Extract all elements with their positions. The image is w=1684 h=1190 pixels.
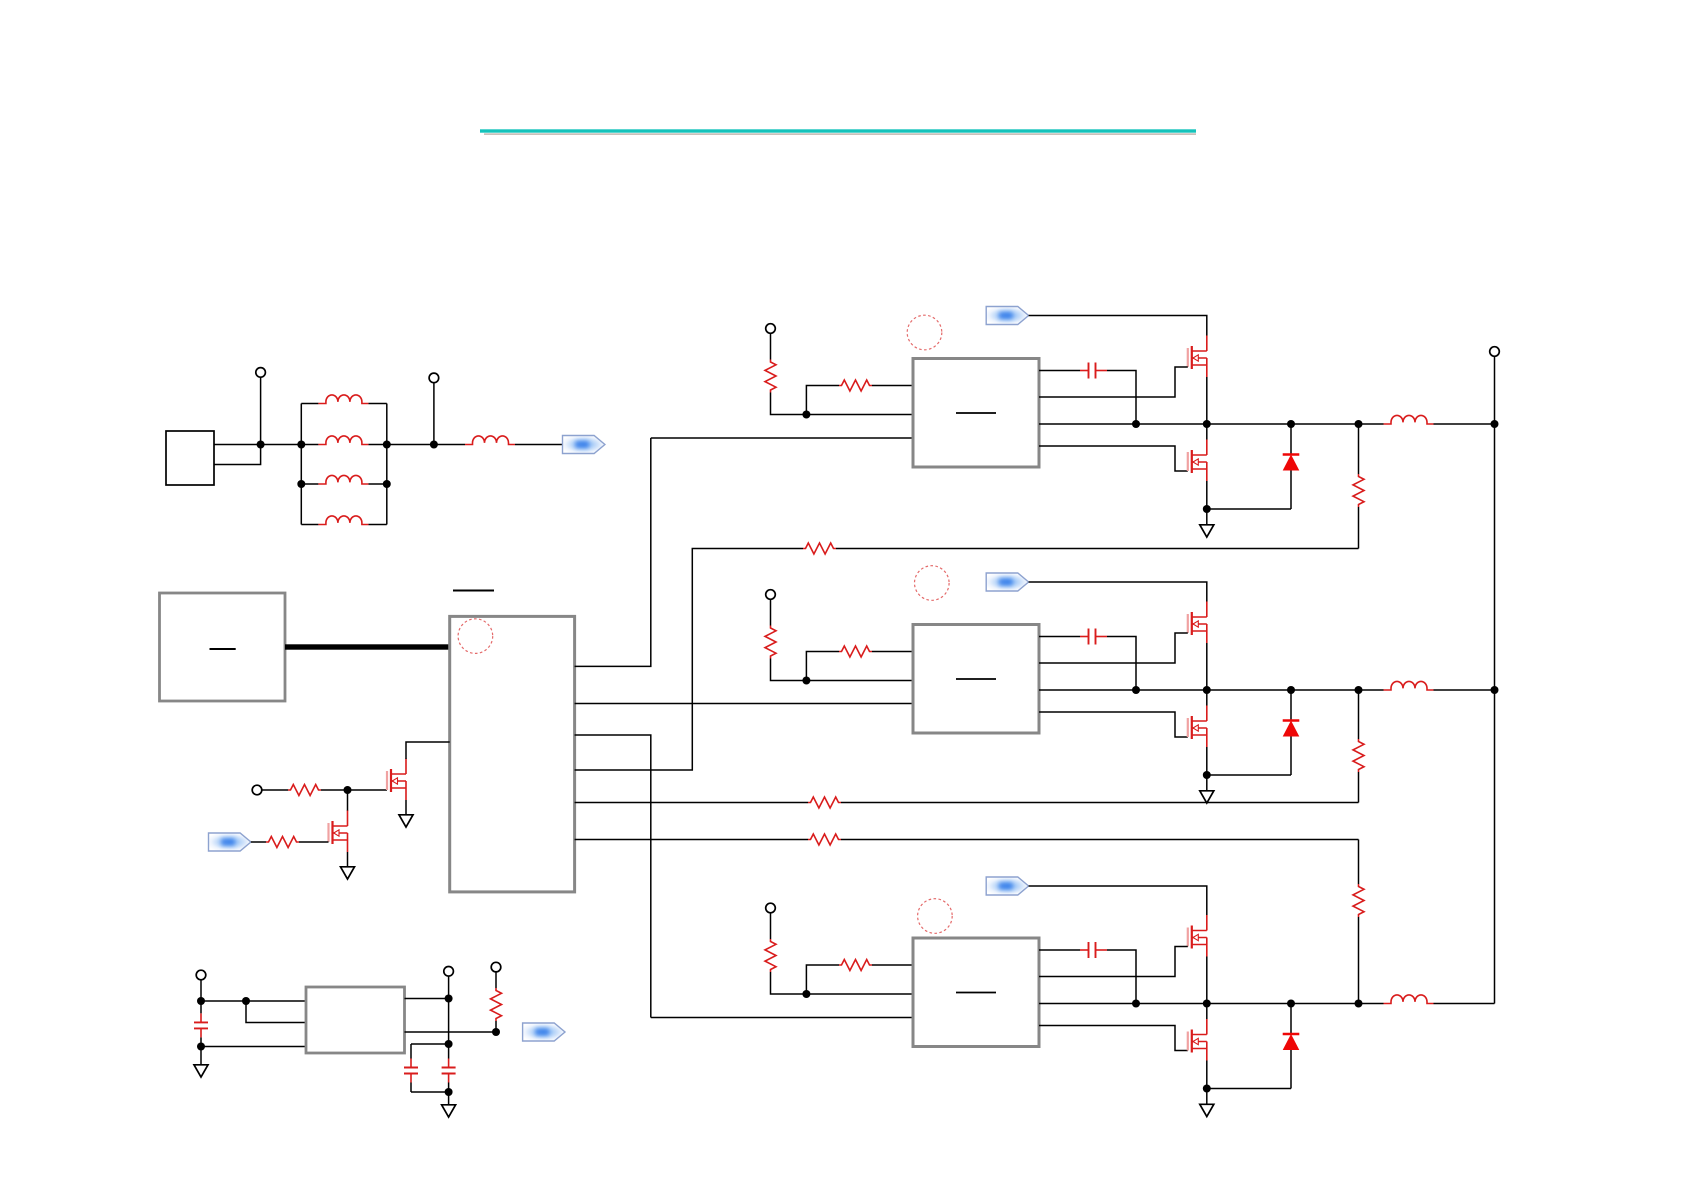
junction [1355,686,1363,694]
capacitor C3 [448,1044,450,1092]
wire rail right [386,404,388,525]
terminal J6 [491,962,501,972]
inductor L8 [1384,995,1434,1004]
junction [197,997,205,1005]
wire pin4 [575,549,803,771]
gate driver box U6 [913,938,1039,1047]
wire [260,377,262,445]
ground [1200,1104,1214,1116]
nmos Q7 high-side [1188,915,1207,957]
wire [1029,582,1207,602]
wire pin5 [575,802,808,804]
feedback wire [1358,424,1360,474]
capacitor C2 [410,1044,412,1092]
terminal J8 [766,590,776,600]
wire [1358,507,1360,549]
junction [1287,420,1295,428]
resistor R12 [808,797,841,808]
resistor R1 [288,785,321,796]
wire [1290,471,1292,510]
junction [1203,771,1211,779]
wire [1029,886,1207,915]
wire source Q2 [347,852,349,866]
ground [442,1105,456,1117]
wire [448,976,450,999]
feedback wire [1358,840,1360,885]
net flag VIN [563,436,605,454]
wire [806,680,913,682]
terminal J4 [196,970,206,980]
label dash [210,648,236,650]
capacitor C12 [1080,629,1107,645]
wire [1039,636,1080,638]
dashed circle [915,566,950,601]
junction [445,1040,453,1048]
wire [495,1021,497,1032]
junction [242,997,250,1005]
wire [872,964,913,966]
controller IC U1 [450,616,575,892]
inductor L3 [301,483,387,485]
wire [1206,424,1208,440]
inductor L2 [301,444,387,446]
junction [445,995,453,1003]
phase wire [1039,423,1384,425]
junction [1491,420,1499,428]
wire [448,999,450,1045]
wire [1107,950,1136,1004]
resistor R22a [765,626,776,659]
nmos Q4 low-side [1188,440,1207,482]
wire [1039,949,1080,951]
nmos Q2 [329,811,348,853]
inductor L1 [301,403,387,405]
junction [1132,420,1140,428]
regulator box U3 [306,987,405,1053]
wire [1206,1089,1208,1104]
label dash [956,678,996,680]
wire [872,651,913,653]
wire [405,998,449,1000]
label dash U1 [453,590,494,592]
module box A1 [160,593,286,701]
nmos Q5 high-side [1188,602,1207,644]
wire [806,386,839,415]
wire [651,437,913,439]
resistor R22b [839,646,872,657]
terminal J7 [766,324,776,334]
wire [1434,1003,1495,1005]
nmos Q8 low-side [1188,1019,1207,1061]
wire [1206,1061,1208,1089]
feedback wire [1358,690,1360,739]
net flag VCC [523,1023,565,1041]
wire [771,659,807,681]
wire [1290,1050,1292,1089]
bus wire (thick) [285,644,450,649]
capacitor C1 [200,1001,202,1047]
inductor L6 [1384,415,1434,424]
junction [1355,1000,1363,1008]
nmos Q1 [387,759,406,801]
wire source Q1 [405,800,407,814]
resistor R21b [839,380,872,391]
wire [411,1091,449,1093]
wire [1290,1004,1292,1035]
nmos Q3 high-side [1188,336,1207,378]
wire [1206,377,1208,424]
resistor R23b [839,960,872,971]
wire [214,445,261,465]
junction [1203,686,1211,694]
phase wire [1039,1003,1384,1005]
junction [297,480,305,488]
inductor L7 [1384,681,1434,690]
junction [1203,1085,1211,1093]
label dash [956,992,996,994]
inductor L5 [465,436,515,445]
wire [405,1031,497,1033]
wire [1206,957,1208,1004]
junction [383,441,391,449]
dashed circle [907,315,942,350]
dashed circle [918,899,953,934]
wire [201,1046,306,1048]
terminal J5 [444,967,454,977]
wire [1206,509,1208,524]
terminal J10 [1490,347,1500,357]
battery box B1 [166,431,214,485]
wire [495,972,497,988]
wire [1434,689,1495,691]
wire [1290,424,1292,455]
wire [770,913,772,940]
junction [445,1088,453,1096]
junction [430,441,438,449]
resistor R23a [765,939,776,972]
wire [200,980,202,1001]
wire [246,1001,306,1023]
wire [321,789,387,791]
junction [802,677,810,685]
junction [297,441,305,449]
wire pin2 [575,703,913,705]
wire [651,1017,913,1019]
junction [1491,686,1499,694]
label dash [956,412,996,414]
resistor R32 [1353,739,1364,772]
wire [771,393,807,415]
wire [299,841,329,843]
title rule (teal) [480,129,1196,132]
wire [201,1000,306,1002]
junction [802,990,810,998]
wire rail left [300,404,302,525]
wire [806,993,913,995]
wire [1206,481,1208,509]
wire [872,385,913,387]
junction [1287,686,1295,694]
resistor R33 [1353,884,1364,917]
junction [1203,420,1211,428]
junction [344,786,352,794]
wire [515,444,563,446]
wire [770,333,772,360]
junction [1287,1000,1295,1008]
wire [806,652,839,681]
wire [433,383,435,445]
wire [200,1047,202,1065]
wire [841,802,1359,804]
wire [387,444,434,446]
wire [1207,1088,1291,1090]
wire gate [1039,633,1188,663]
terminal J1 [256,368,266,378]
wire [770,599,772,626]
wire [347,790,349,811]
wire pin1 [575,438,651,666]
diode D1 [1283,455,1300,471]
wire [1206,747,1208,775]
wire gate [1039,947,1188,977]
resistor R21a [765,360,776,393]
ground [341,867,355,879]
capacitor C13 [1080,942,1107,958]
wire [214,444,261,446]
wire [1358,772,1360,803]
terminal J2 [429,373,439,383]
wire [806,965,839,994]
wire [1039,370,1080,372]
wire pin3 [575,735,651,1018]
wire [1358,917,1360,1004]
junction [1355,420,1363,428]
junction [802,411,810,419]
phase wire [1039,689,1384,691]
wire gate [1039,712,1188,737]
resistor R3 [491,988,502,1021]
wire gate [1039,446,1188,471]
net flag BST3 [986,877,1028,895]
wire [1290,737,1292,776]
wire [448,1092,450,1104]
wire [771,972,807,994]
ground [399,815,413,827]
net flag BST1 [986,307,1028,325]
junction [1132,686,1140,694]
wire [836,548,1359,550]
wire [411,1043,449,1045]
diode D2 [1283,721,1300,737]
ground [194,1065,208,1077]
gate driver box U4 [913,359,1039,468]
junction [1203,1000,1211,1008]
wire [1207,774,1291,776]
wire [1206,643,1208,690]
wire pin6 [575,839,808,841]
output rail wire [1494,356,1496,1003]
junction [383,480,391,488]
wire [1206,775,1208,790]
junction [1132,1000,1140,1008]
resistor R2 [266,837,299,848]
resistor R11 [803,543,836,554]
wire gate [1039,367,1188,397]
junction [257,441,265,449]
wire [841,839,1359,841]
wire [262,789,288,791]
nmos Q6 low-side [1188,706,1207,748]
wire gate [1039,1026,1188,1051]
terminal J3 [252,785,262,795]
wire [806,414,913,416]
wire [1107,371,1136,425]
resistor R31 [1353,474,1364,507]
wire [1207,508,1291,510]
ground [1200,791,1214,803]
wire [1107,637,1136,691]
junction [492,1028,500,1036]
net flag EN [209,833,251,851]
resistor R13 [808,834,841,845]
ground [1200,525,1214,537]
wire [251,841,266,843]
gate driver box U5 [913,625,1039,734]
terminal J9 [766,903,776,913]
capacitor C11 [1080,363,1107,379]
wire drain Q1 [406,742,450,759]
wire [1206,1004,1208,1020]
wire [1029,316,1207,336]
net flag BST2 [986,573,1028,591]
wire [261,444,302,446]
dashed circle [458,619,493,654]
wire [1434,423,1495,425]
wire [434,444,465,446]
inductor L4 [301,524,387,526]
wire [1290,690,1292,721]
junction [1203,505,1211,513]
junction [197,1043,205,1051]
wire [1206,690,1208,706]
diode D3 [1283,1034,1300,1050]
